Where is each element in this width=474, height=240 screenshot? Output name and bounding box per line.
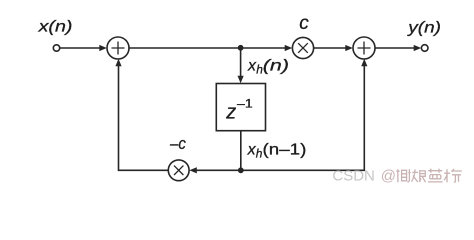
svg-text:CSDN: CSDN xyxy=(332,167,375,184)
output terminal xyxy=(421,45,428,52)
watermark char lan xyxy=(428,169,443,182)
watermark char xie xyxy=(396,169,410,182)
svg-text:@: @ xyxy=(381,167,396,184)
multiplier M1 (c) xyxy=(292,37,313,58)
wire M1 to summer S2 xyxy=(314,47,347,49)
svg-text:z: z xyxy=(225,102,236,124)
wire junction B right and up to S2 xyxy=(241,66,364,170)
wire M2 left and up to S1 xyxy=(119,66,169,170)
svg-text:–1: –1 xyxy=(237,99,253,111)
svg-text:y(n): y(n) xyxy=(407,19,441,36)
delay block Z1 (z^-1) xyxy=(216,84,265,131)
junction B xyxy=(238,167,244,173)
arrowhead into output xyxy=(414,45,422,51)
arrowhead into delay top xyxy=(238,76,244,84)
wire S2 to output terminal xyxy=(375,47,415,49)
junction A xyxy=(238,45,244,51)
wire junction A down to delay xyxy=(240,48,242,78)
summing node S1 xyxy=(107,37,129,59)
wire S1 to multiplier M1 xyxy=(129,47,286,49)
wire junction B left to multiplier M2 xyxy=(196,169,241,171)
multiplier M2 (-c) xyxy=(168,160,189,181)
summing node S2 xyxy=(353,37,375,59)
svg-text:(n): (n) xyxy=(263,58,289,75)
arrowhead up into S1 bottom xyxy=(115,59,121,67)
svg-text:x(n): x(n) xyxy=(37,19,72,36)
wire input to summer S1 xyxy=(60,47,101,49)
watermark char qiao xyxy=(444,169,462,183)
arrowhead into M2 right xyxy=(189,167,197,173)
input terminal xyxy=(53,45,59,51)
wire delay to junction B xyxy=(240,131,242,171)
arrowhead up into S2 bottom xyxy=(361,59,367,67)
svg-text:c: c xyxy=(299,13,309,34)
watermark char niang xyxy=(412,169,426,182)
svg-text:–c: –c xyxy=(169,134,186,153)
arrowhead into M1 xyxy=(285,45,293,51)
svg-text:(n–1): (n–1) xyxy=(263,142,307,159)
arrowhead into S1 xyxy=(99,45,107,51)
arrowhead into S2 xyxy=(345,45,353,51)
